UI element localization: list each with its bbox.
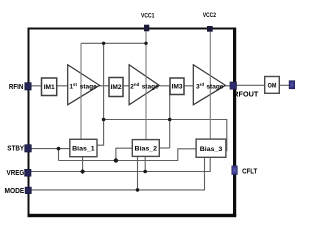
svg-text:VCC2: VCC2 [203,12,217,19]
svg-text:MODE: MODE [5,186,25,195]
svg-text:Bias_2: Bias_2 [135,146,158,153]
svg-text:VCC1: VCC1 [141,13,155,20]
svg-text:IM2: IM2 [111,84,122,91]
svg-text:Bias_3: Bias_3 [200,146,223,153]
svg-text:OM: OM [268,83,277,90]
svg-text:IM1: IM1 [44,84,55,91]
svg-text:Bias_1: Bias_1 [72,146,95,153]
svg-text:STBY: STBY [7,143,24,152]
svg-text:VREG: VREG [7,168,25,177]
svg-text:IM3: IM3 [172,84,183,91]
svg-text:RFOUT: RFOUT [233,89,259,98]
svg-text:RFIN: RFIN [9,82,24,91]
svg-text:CFLT: CFLT [242,167,258,176]
